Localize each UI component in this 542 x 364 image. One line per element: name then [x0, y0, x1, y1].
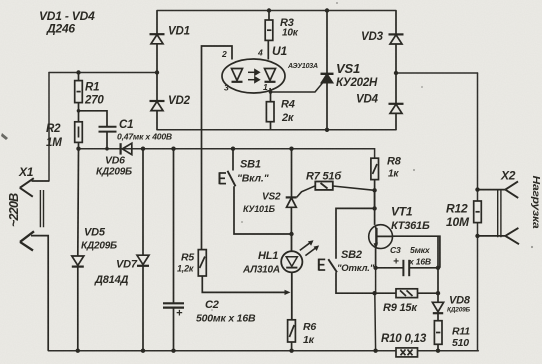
label R8	[387, 156, 402, 180]
node R1-R2 junction	[77, 109, 81, 113]
node R12 bottom junction	[475, 234, 479, 238]
resistor R11	[434, 321, 442, 351]
wire bridge bottom	[157, 129, 396, 131]
diode VD8	[432, 236, 443, 321]
wire left rail	[48, 73, 50, 182]
label U1	[272, 44, 318, 70]
diode VD2	[150, 73, 165, 130]
diode VD5	[72, 149, 84, 351]
label R6	[303, 321, 316, 346]
label C1	[117, 119, 172, 142]
diode VD6	[121, 143, 132, 154]
label U1 pins	[221, 48, 268, 93]
node R2 bottom junction	[76, 147, 80, 151]
label VD6	[96, 155, 132, 178]
diode VD4	[389, 73, 404, 130]
label C3	[390, 245, 431, 268]
resistor R7	[315, 182, 374, 191]
connector X2	[478, 181, 520, 244]
thyristor VS1	[321, 11, 334, 130]
node VT1-C3 junction	[373, 266, 377, 270]
label R5	[177, 252, 194, 274]
label R12	[446, 202, 470, 230]
label HL1	[242, 250, 280, 276]
capacitor C1	[79, 111, 117, 149]
wire upper-left horizontal	[49, 72, 157, 74]
node VD7 top junction	[141, 147, 145, 151]
optocoupler U1	[202, 46, 286, 130]
wire VT1 collector node to R9 line	[375, 268, 377, 293]
LED HL1	[281, 234, 319, 320]
transistor VT1	[369, 190, 440, 267]
node U1 pin1 junction	[269, 90, 273, 94]
wire U1 pin1 to VS1 gate	[271, 82, 324, 92]
node R8-R7 junction	[372, 188, 376, 192]
node VS2 top junction	[289, 147, 293, 151]
scan noise texture	[0, 0, 1, 1]
label VS2	[243, 192, 281, 215]
node bottom rail junctions	[76, 349, 441, 353]
label R4	[281, 99, 295, 125]
resistor R2	[75, 122, 83, 149]
resistor R8	[371, 158, 379, 208]
node C2 top junction	[171, 147, 175, 151]
label R11	[452, 326, 470, 350]
node VD3-VD4 junction	[394, 71, 398, 75]
wire R9 left node to bottom rail	[374, 293, 377, 351]
resistor R12	[474, 201, 482, 223]
label VD5	[81, 227, 117, 252]
capacitor C3	[376, 260, 438, 276]
connector X1	[20, 178, 49, 351]
label R2	[46, 123, 62, 149]
wire bottom rail	[48, 350, 478, 352]
diode VD7	[137, 149, 149, 351]
node R12 top junction	[475, 187, 479, 191]
resistor R6	[288, 320, 296, 351]
resistor R3	[265, 11, 273, 60]
resistor R4	[266, 92, 274, 130]
label C2	[176, 299, 256, 325]
label SB2	[337, 249, 375, 274]
resistor R10	[396, 348, 418, 357]
diode VD3	[389, 11, 404, 74]
node R3 top junction	[267, 8, 271, 12]
node VD1-VD2 junction	[155, 70, 159, 74]
switch SB1	[220, 149, 292, 234]
resistor R5	[198, 130, 290, 295]
node R9 left junction	[372, 291, 376, 295]
node R1 top junction	[76, 70, 80, 74]
label VS1	[336, 61, 378, 89]
node SB1-VS2 junction	[289, 232, 293, 236]
wire right rail	[477, 73, 479, 351]
switch SB2	[319, 208, 376, 293]
node SB1 top junction	[231, 147, 235, 151]
node C3 right junction	[436, 266, 440, 270]
label VT1	[391, 205, 430, 233]
node C1 bottom junction	[105, 147, 109, 151]
label VD1-VD4 header	[39, 9, 95, 36]
capacitor C2	[163, 149, 184, 351]
label R3	[280, 17, 299, 39]
label VD8	[447, 295, 471, 314]
wire VD3-VD4 to right rail	[396, 72, 478, 74]
resistor R1	[75, 73, 83, 122]
wire top rail	[157, 10, 396, 12]
node bridge top junction	[325, 8, 329, 12]
label R1	[84, 82, 104, 107]
thyristor VS2	[286, 149, 316, 234]
node VS1 anode junction	[325, 128, 329, 132]
wire mid horizontal	[79, 149, 375, 159]
node VT1 top junction	[372, 206, 376, 210]
label VD7	[94, 259, 138, 287]
label SB1	[237, 159, 270, 185]
diode VD1	[150, 11, 165, 73]
resistor R9	[375, 289, 438, 298]
node R9 right junction	[436, 291, 440, 295]
